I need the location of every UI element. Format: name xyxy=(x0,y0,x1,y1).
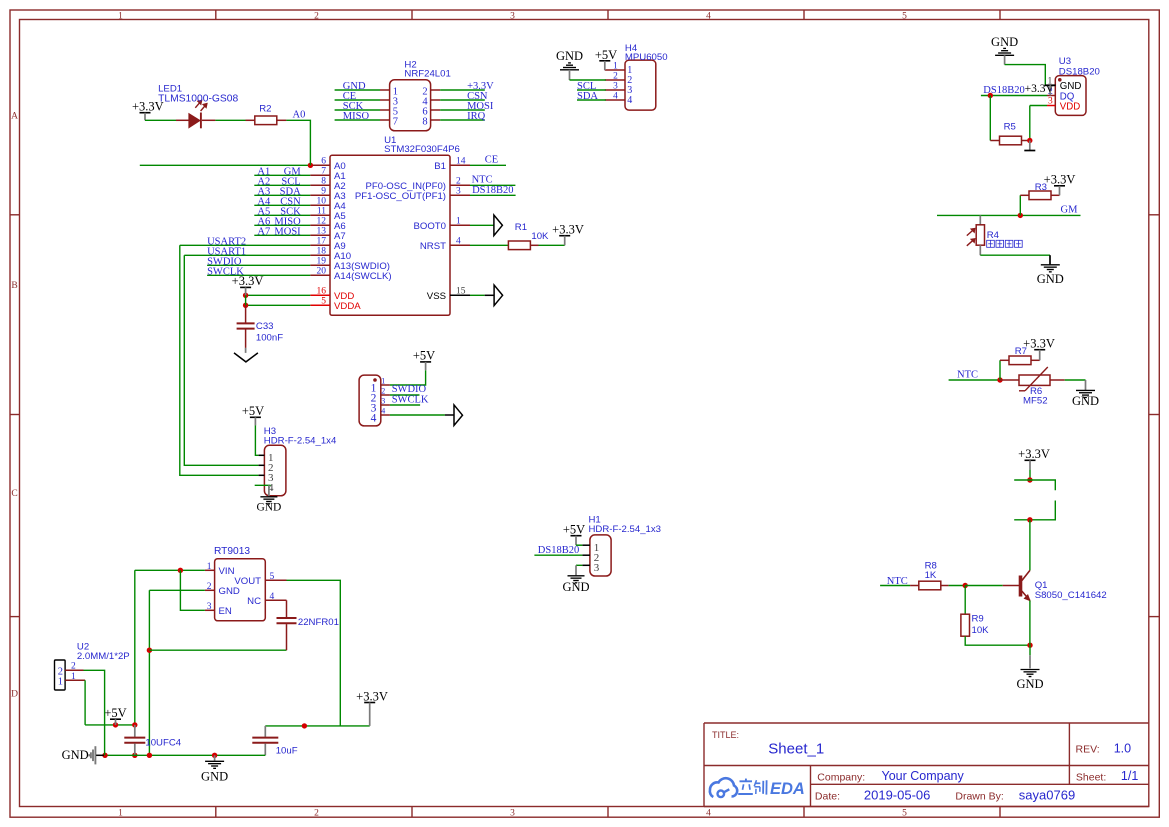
svg-text:+3.3V: +3.3V xyxy=(552,223,584,237)
svg-text:1: 1 xyxy=(58,676,63,687)
svg-text:2: 2 xyxy=(613,72,618,82)
svg-text:3: 3 xyxy=(1048,97,1053,107)
svg-text:MISO: MISO xyxy=(343,111,370,122)
svg-text:2: 2 xyxy=(314,808,319,818)
svg-text:2: 2 xyxy=(71,662,76,672)
svg-text:NC: NC xyxy=(247,596,261,607)
svg-text:1/1: 1/1 xyxy=(1121,769,1138,783)
svg-text:1K: 1K xyxy=(925,570,937,581)
svg-text:5: 5 xyxy=(902,808,907,818)
svg-text:+3.3V: +3.3V xyxy=(1023,337,1055,351)
svg-text:GND: GND xyxy=(562,580,589,594)
svg-text:10UFC4: 10UFC4 xyxy=(145,738,181,749)
svg-text:1: 1 xyxy=(456,217,461,227)
svg-text:NRF24L01: NRF24L01 xyxy=(404,69,450,80)
svg-text:R1: R1 xyxy=(515,222,527,233)
svg-text:4: 4 xyxy=(381,407,385,416)
svg-text:3: 3 xyxy=(381,397,385,406)
svg-text:1: 1 xyxy=(381,377,385,386)
svg-text:VSS: VSS xyxy=(427,291,446,302)
svg-text:CE: CE xyxy=(485,155,498,166)
svg-text:4: 4 xyxy=(706,11,711,21)
svg-text:7: 7 xyxy=(393,116,398,127)
svg-text:GND: GND xyxy=(1072,394,1099,408)
svg-text:GND: GND xyxy=(1016,677,1043,691)
svg-text:+3.3V: +3.3V xyxy=(1025,83,1055,95)
svg-text:BOOT0: BOOT0 xyxy=(413,221,446,232)
svg-text:1: 1 xyxy=(207,562,212,572)
svg-text:RT9013: RT9013 xyxy=(214,546,250,557)
svg-text:R9: R9 xyxy=(972,614,984,625)
svg-text:saya0769: saya0769 xyxy=(1019,788,1075,803)
svg-text:16: 16 xyxy=(317,287,327,297)
svg-text:17: 17 xyxy=(317,237,327,247)
svg-text:MOSI: MOSI xyxy=(274,227,301,238)
svg-text:GND: GND xyxy=(256,502,281,514)
svg-text:R4: R4 xyxy=(987,230,1000,241)
svg-text:22NFR01: 22NFR01 xyxy=(298,617,339,628)
svg-text:IRQ: IRQ xyxy=(467,111,486,122)
svg-text:3: 3 xyxy=(594,562,600,574)
svg-text:HDR-F-2.54_1x3: HDR-F-2.54_1x3 xyxy=(589,524,662,535)
svg-text:EN: EN xyxy=(219,606,232,617)
svg-text:2019-05-06: 2019-05-06 xyxy=(864,787,931,802)
svg-text:MPU6050: MPU6050 xyxy=(625,52,668,63)
svg-text:10uF: 10uF xyxy=(276,746,298,757)
svg-text:12: 12 xyxy=(317,217,327,227)
svg-text:Your Company: Your Company xyxy=(882,769,965,783)
svg-text:14: 14 xyxy=(456,157,466,167)
svg-text:5: 5 xyxy=(321,297,326,307)
svg-text:11: 11 xyxy=(317,207,326,217)
svg-text:GND: GND xyxy=(62,748,89,762)
svg-text:HDR-F-2.54_1x4: HDR-F-2.54_1x4 xyxy=(264,436,337,447)
svg-text:10: 10 xyxy=(317,197,327,207)
svg-text:R5: R5 xyxy=(1004,121,1016,132)
svg-text:5: 5 xyxy=(902,11,907,21)
svg-text:2.0MM/1*2P: 2.0MM/1*2P xyxy=(77,651,130,662)
svg-text:7: 7 xyxy=(321,167,326,177)
svg-text:4: 4 xyxy=(706,808,711,818)
svg-text:Sheet_1: Sheet_1 xyxy=(768,741,824,758)
svg-text:20: 20 xyxy=(317,267,327,277)
svg-text:2: 2 xyxy=(207,582,212,592)
svg-text:GND: GND xyxy=(556,49,583,63)
svg-text:10K: 10K xyxy=(531,231,549,242)
svg-text:STM32F030F4P6: STM32F030F4P6 xyxy=(384,144,460,155)
svg-text:TITLE:: TITLE: xyxy=(712,730,739,740)
svg-text:REV:: REV: xyxy=(1076,744,1100,756)
svg-text:VDD: VDD xyxy=(1060,101,1080,112)
svg-text:2: 2 xyxy=(456,177,461,187)
svg-text:NRST: NRST xyxy=(420,241,446,252)
svg-text:A7: A7 xyxy=(257,227,270,238)
svg-text:4: 4 xyxy=(456,237,461,247)
svg-text:10K: 10K xyxy=(972,625,990,636)
svg-text:GND: GND xyxy=(1037,272,1064,286)
svg-text:+5V: +5V xyxy=(104,706,126,720)
svg-text:1: 1 xyxy=(118,11,123,21)
svg-text:4: 4 xyxy=(627,95,632,106)
svg-text:4: 4 xyxy=(270,592,275,602)
svg-text:A14(SWCLK): A14(SWCLK) xyxy=(334,271,392,282)
svg-text:15: 15 xyxy=(456,287,466,297)
svg-text:+5V: +5V xyxy=(563,523,585,537)
svg-text:3: 3 xyxy=(207,602,212,612)
svg-text:5: 5 xyxy=(270,572,275,582)
svg-text:100nF: 100nF xyxy=(256,333,283,344)
svg-text:VIN: VIN xyxy=(219,566,235,577)
svg-text:+5V: +5V xyxy=(413,349,435,363)
svg-text:C: C xyxy=(11,489,17,499)
svg-text:8: 8 xyxy=(321,177,326,187)
svg-text:MF52: MF52 xyxy=(1023,396,1048,407)
svg-text:EDA: EDA xyxy=(770,780,805,798)
svg-text:3: 3 xyxy=(456,187,461,197)
svg-text:2: 2 xyxy=(314,11,319,21)
svg-text:R7: R7 xyxy=(1015,346,1027,357)
svg-text:+3.3V: +3.3V xyxy=(356,689,388,703)
svg-text:DS18B20: DS18B20 xyxy=(1059,66,1100,77)
svg-text:B: B xyxy=(11,281,17,291)
svg-text:GND: GND xyxy=(991,35,1018,49)
svg-text:18: 18 xyxy=(317,247,327,257)
svg-text:+3.3V: +3.3V xyxy=(1018,447,1050,461)
svg-text:+5V: +5V xyxy=(242,404,264,418)
svg-text:VDDA: VDDA xyxy=(334,301,361,312)
svg-text:9: 9 xyxy=(321,187,326,197)
svg-text:TLMS1000-GS08: TLMS1000-GS08 xyxy=(158,93,238,104)
svg-text:S8050_C141642: S8050_C141642 xyxy=(1035,590,1107,601)
svg-text:Company:: Company: xyxy=(817,772,865,784)
svg-text:1: 1 xyxy=(118,808,123,818)
svg-text:+5V: +5V xyxy=(595,48,617,62)
svg-text:C33: C33 xyxy=(256,321,274,332)
svg-text:4: 4 xyxy=(613,92,618,102)
svg-text:A: A xyxy=(11,111,18,121)
svg-text:A0: A0 xyxy=(293,109,306,120)
svg-text:3: 3 xyxy=(510,808,515,818)
svg-text:GM: GM xyxy=(1061,205,1079,216)
svg-text:19: 19 xyxy=(317,257,327,267)
svg-text:1.0: 1.0 xyxy=(1114,742,1131,756)
svg-text:Date:: Date: xyxy=(815,790,840,802)
svg-text:R2: R2 xyxy=(259,103,271,114)
svg-text:VOUT: VOUT xyxy=(234,576,261,587)
svg-text:PF1-OSC_OUT(PF1): PF1-OSC_OUT(PF1) xyxy=(355,191,446,202)
svg-text:NTC: NTC xyxy=(957,369,978,380)
svg-text:1: 1 xyxy=(71,672,76,682)
svg-text:13: 13 xyxy=(317,227,327,237)
svg-text:GND: GND xyxy=(201,770,228,784)
svg-text:3: 3 xyxy=(510,11,515,21)
svg-text:2: 2 xyxy=(381,387,385,396)
svg-text:SWCLK: SWCLK xyxy=(392,394,429,405)
svg-text:D: D xyxy=(11,689,18,699)
svg-text:6: 6 xyxy=(321,157,326,167)
svg-text:GND: GND xyxy=(219,586,240,597)
svg-text:Sheet:: Sheet: xyxy=(1076,771,1106,783)
svg-text:+3.3V: +3.3V xyxy=(1044,173,1076,187)
svg-text:DS18B20: DS18B20 xyxy=(472,185,513,196)
svg-text:R3: R3 xyxy=(1035,182,1047,193)
svg-text:3: 3 xyxy=(613,82,618,92)
svg-text:B1: B1 xyxy=(434,161,446,172)
svg-text:Drawn By:: Drawn By: xyxy=(955,791,1003,803)
svg-text:8: 8 xyxy=(422,116,427,127)
svg-text:1: 1 xyxy=(613,62,618,72)
svg-text:4: 4 xyxy=(371,412,377,424)
svg-text:+3.3V: +3.3V xyxy=(232,274,264,288)
